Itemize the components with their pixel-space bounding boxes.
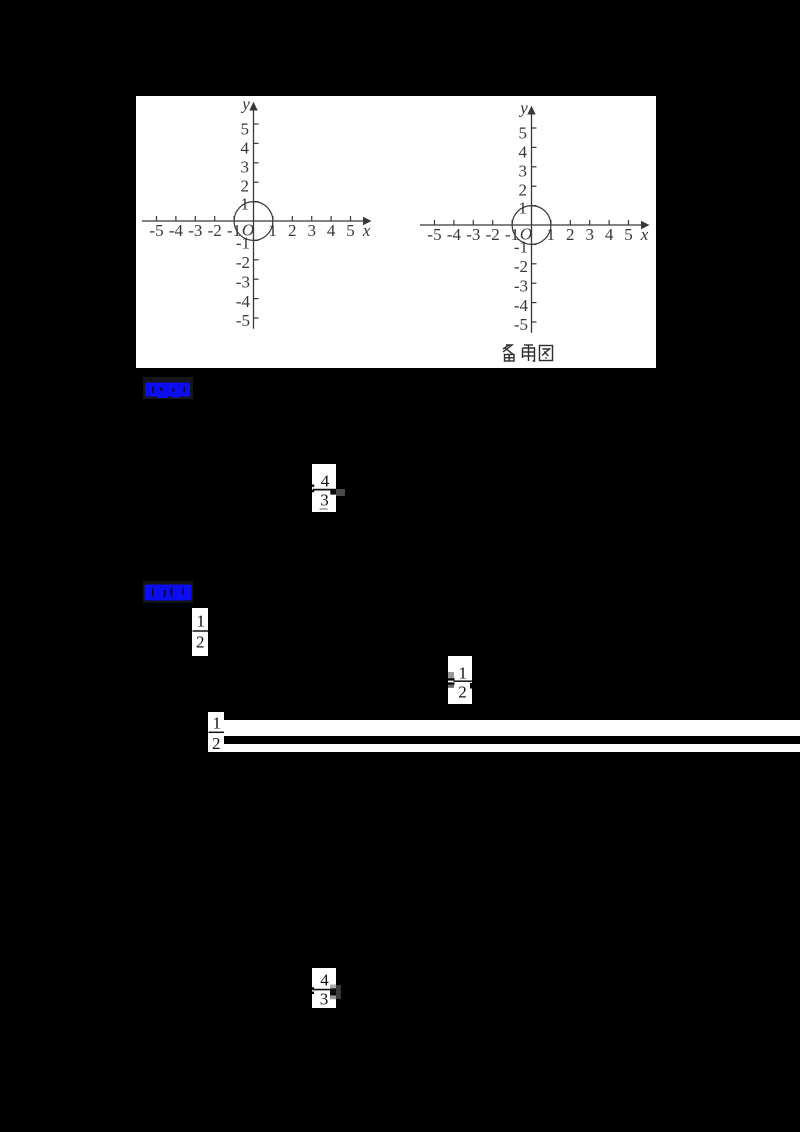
left grid y-axis <box>253 107 255 329</box>
right grid unit circle <box>512 206 551 245</box>
left grid unit circle <box>234 202 273 241</box>
svg-text:1: 1 <box>458 664 467 683</box>
svg-text:-4: -4 <box>169 221 184 240</box>
svg-text:-2: -2 <box>208 221 222 240</box>
svg-text:3: 3 <box>320 491 329 510</box>
right grid x-axis <box>420 224 643 226</box>
svg-text:1: 1 <box>269 221 278 240</box>
svg-text:4: 4 <box>605 225 614 244</box>
svg-text:2: 2 <box>196 633 205 652</box>
svg-text:1: 1 <box>547 225 556 244</box>
white formula box: 4/3 (bottom) <box>312 968 336 1008</box>
svg-text:2: 2 <box>566 225 575 244</box>
svg-text:-2: -2 <box>236 253 250 272</box>
svg-text:5: 5 <box>624 225 633 244</box>
svg-text:-5: -5 <box>236 311 250 330</box>
svg-text:-5: -5 <box>149 221 163 240</box>
svg-text:-4: -4 <box>236 292 251 311</box>
svg-text:-4: -4 <box>447 225 462 244</box>
pi mark crossing right edge <box>330 489 336 495</box>
svg-text:-2: -2 <box>486 225 500 244</box>
svg-text:-5: -5 <box>427 225 441 244</box>
svg-text:2: 2 <box>241 176 250 195</box>
svg-text:-3: -3 <box>236 272 250 291</box>
svg-text:1: 1 <box>196 612 205 631</box>
svg-text:1: 1 <box>519 199 528 218</box>
figure panel: two coordinate grids on white <box>136 96 656 368</box>
svg-text:4: 4 <box>519 143 528 162</box>
svg-text:4: 4 <box>320 971 329 990</box>
blue tag 1 <box>143 377 193 399</box>
equals tip at left edge <box>312 485 314 487</box>
right grid ticks <box>435 128 629 322</box>
svg-text:-1: -1 <box>514 238 528 257</box>
svg-text:-3: -3 <box>188 221 202 240</box>
svg-text:5: 5 <box>241 120 250 139</box>
white formula box: 1/2 (second, before highlighted rows) <box>208 712 224 752</box>
right grid x tick labels <box>427 99 648 245</box>
equals tip at left edge <box>312 987 314 989</box>
svg-text:y: y <box>518 99 528 118</box>
right grid y-axis <box>531 111 533 333</box>
left grid x-axis <box>142 220 365 222</box>
svg-text:4: 4 <box>327 221 336 240</box>
svg-text:2: 2 <box>458 683 467 702</box>
right grid y tick labels <box>514 124 529 335</box>
svg-text:1: 1 <box>212 714 221 733</box>
svg-text:4: 4 <box>321 472 330 491</box>
svg-text:3: 3 <box>307 221 316 240</box>
svg-text:-4: -4 <box>514 296 529 315</box>
svg-text:x: x <box>640 225 649 244</box>
svg-text:3: 3 <box>241 157 250 176</box>
svg-text:3: 3 <box>320 990 329 1009</box>
blue tag 2 <box>143 581 193 603</box>
glyph 用 <box>523 345 535 361</box>
white formula box: =1/2 <box>448 656 472 704</box>
svg-text:-2: -2 <box>514 257 528 276</box>
left grid y arrowhead <box>249 102 257 111</box>
svg-text:5: 5 <box>519 124 528 143</box>
svg-text:2: 2 <box>519 180 528 199</box>
right grid x arrowhead <box>641 221 650 230</box>
svg-text:1: 1 <box>241 195 250 214</box>
glyph 备 <box>503 345 514 355</box>
white formula box: 1/2 (first) <box>192 608 208 656</box>
svg-text:x: x <box>362 221 371 240</box>
svg-text:-3: -3 <box>514 276 528 295</box>
left grid x tick labels <box>149 95 370 241</box>
svg-text:-3: -3 <box>466 225 480 244</box>
svg-text:3: 3 <box>585 225 594 244</box>
svg-text:5: 5 <box>346 221 355 240</box>
svg-text:-5: -5 <box>514 315 528 334</box>
svg-text:-1: -1 <box>236 234 250 253</box>
highlighted row stripe B <box>224 744 800 752</box>
svg-text:3: 3 <box>519 161 528 180</box>
pi mark and gray smudge at right edge <box>330 985 336 989</box>
svg-text:4: 4 <box>241 139 250 158</box>
caption 备用图 (hand-drawn glyphs) <box>503 345 553 361</box>
svg-text:2: 2 <box>288 221 297 240</box>
svg-text:2: 2 <box>212 734 221 752</box>
left grid ticks <box>157 124 351 318</box>
highlighted row stripe A <box>224 720 800 736</box>
white formula box: 4/3 (top) <box>312 464 336 512</box>
left grid y tick labels <box>236 120 251 331</box>
svg-text:y: y <box>240 96 250 114</box>
left grid x arrowhead <box>363 217 372 226</box>
right grid y arrowhead <box>527 106 535 115</box>
glyph 图 <box>540 346 553 361</box>
